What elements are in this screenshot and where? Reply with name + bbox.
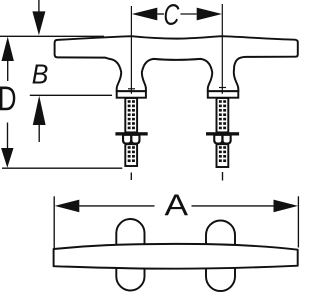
dimension A line and arrows	[55, 200, 80, 213]
centerline left stud	[130, 6, 132, 94]
centerline dash below right stud	[222, 172, 224, 181]
dimension C line and arrows	[132, 8, 158, 21]
extension line B bottom	[30, 94, 112, 96]
label C	[165, 4, 180, 25]
bottom view: left mounting pad capsule	[116, 219, 144, 291]
cleat body side view outline	[55, 36, 298, 91]
label D	[0, 87, 15, 111]
centerline dash below left stud	[130, 173, 132, 181]
label B	[33, 65, 48, 84]
nut right	[213, 136, 232, 145]
dimension B bottom arrow	[33, 96, 46, 125]
threaded stud left upper	[125, 98, 137, 132]
base plate right	[208, 91, 239, 98]
threaded stud left lower	[125, 144, 137, 166]
centerline tick left	[128, 88, 135, 90]
base plate left	[117, 91, 146, 98]
dimension B top arrow	[38, 0, 40, 12]
extension line top (for B and D)	[0, 35, 104, 37]
washer left	[115, 132, 147, 135]
label A	[165, 195, 188, 216]
bottom view: cleat plan outline	[54, 244, 298, 269]
dimension D top arrow	[2, 37, 14, 61]
washer right	[206, 132, 239, 135]
nut left	[122, 136, 141, 145]
dimension A extension line left	[53, 196, 55, 249]
bottom view: right mounting pad capsule	[206, 221, 235, 292]
threaded stud right upper	[217, 98, 229, 132]
extension line D bottom	[2, 167, 122, 169]
dimension D bottom arrow	[7, 123, 9, 149]
dimension A extension line right	[297, 196, 299, 247]
threaded stud right lower	[217, 144, 229, 167]
centerline tick right	[219, 87, 226, 89]
centerline right stud	[221, 4, 223, 94]
